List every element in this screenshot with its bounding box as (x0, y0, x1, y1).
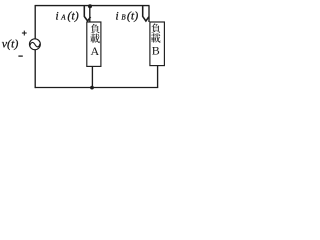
svg-text:B: B (152, 43, 160, 57)
svg-text:A: A (60, 13, 66, 21)
current arrow iA (84, 6, 90, 21)
wire bottom horizontal (35, 87, 159, 89)
load B label 負載B (151, 24, 161, 58)
node junction dot top (load A tap) (88, 4, 92, 8)
node junction dot bottom (90, 86, 94, 90)
wire left vertical (34, 5, 36, 88)
svg-text:(t): (t) (127, 8, 138, 22)
svg-text:i: i (55, 8, 58, 22)
load B box (150, 22, 165, 66)
svg-text:A: A (90, 44, 99, 58)
current arrow iB (143, 6, 149, 21)
svg-text:i: i (115, 8, 118, 22)
load A box (87, 22, 101, 66)
svg-text:B: B (121, 13, 126, 21)
wire load A top drop (89, 6, 91, 22)
wire load A bottom drop (91, 66, 93, 87)
voltage source v(t): circle with sine (29, 39, 40, 50)
wire top horizontal (35, 5, 150, 7)
wire load B top drop (148, 6, 150, 22)
polarity minus (18, 55, 22, 57)
wire load B bottom drop (157, 66, 159, 88)
svg-text:(t): (t) (67, 8, 78, 22)
load A label 負載A (90, 24, 100, 58)
polarity plus (22, 31, 27, 36)
svg-text:v(t): v(t) (2, 37, 19, 51)
